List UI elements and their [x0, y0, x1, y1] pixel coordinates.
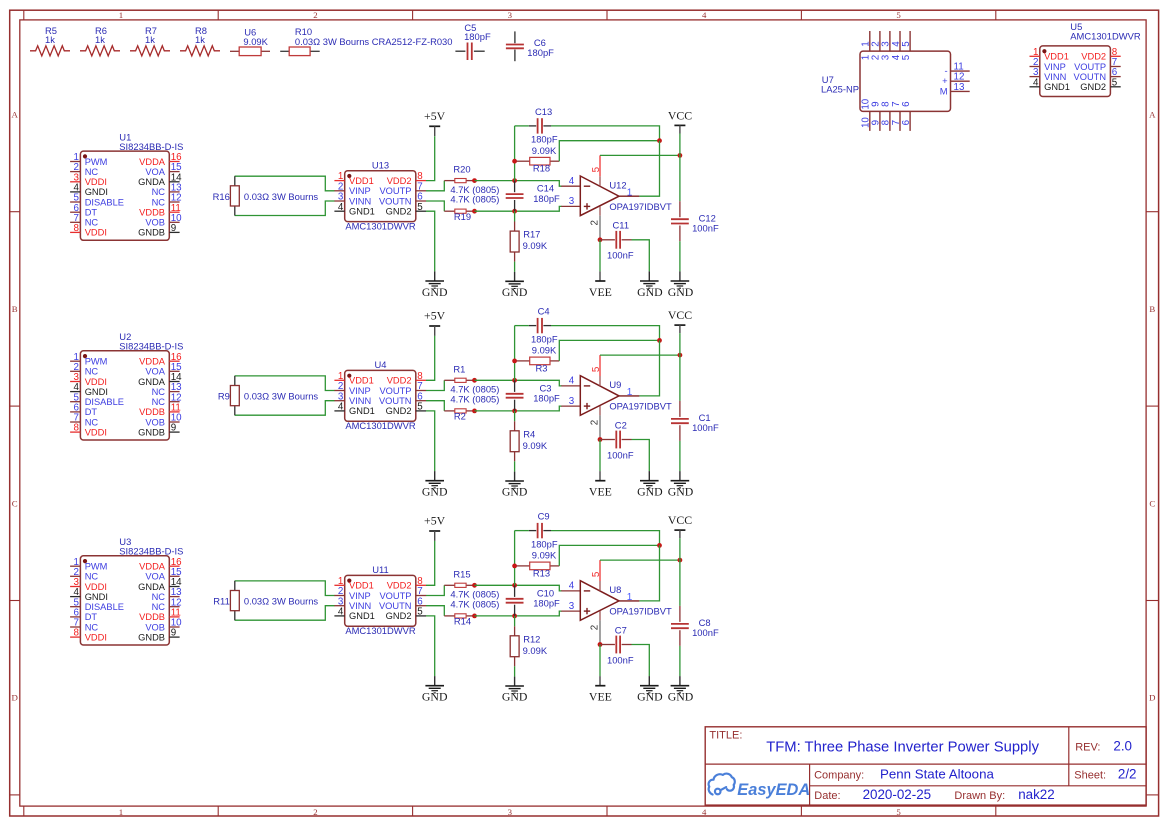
svg-text:DISABLE: DISABLE — [85, 397, 124, 407]
svg-text:NC: NC — [85, 218, 99, 228]
svg-text:VDDI: VDDI — [85, 582, 107, 592]
svg-text:VDD2: VDD2 — [387, 376, 412, 386]
power VEE — [589, 471, 612, 498]
svg-text:VINP: VINP — [349, 591, 371, 601]
svg-text:SI8234BB-D-IS: SI8234BB-D-IS — [119, 546, 183, 557]
wire — [235, 201, 335, 216]
svg-text:NC: NC — [152, 602, 166, 612]
svg-text:0.03Ω 3W Bourns CRA2512-FZ-R03: 0.03Ω 3W Bourns CRA2512-FZ-R030 — [295, 36, 453, 47]
capacitor C12 100nF — [671, 201, 719, 241]
svg-text:6: 6 — [901, 119, 912, 125]
title text — [709, 730, 1039, 756]
svg-text:R13: R13 — [533, 567, 550, 578]
wire — [426, 380, 444, 390]
wire — [679, 646, 681, 676]
svg-text:GNDA: GNDA — [138, 177, 166, 187]
svg-text:5: 5 — [591, 571, 602, 577]
svg-text:VOUTN: VOUTN — [1074, 72, 1107, 82]
svg-text:R19: R19 — [454, 211, 471, 222]
svg-text:R18: R18 — [533, 163, 550, 174]
wire — [559, 340, 659, 361]
wire — [514, 666, 516, 676]
svg-text:4: 4 — [338, 402, 344, 413]
svg-text:4.7K (0805): 4.7K (0805) — [450, 393, 499, 404]
shunt resistor R9 0.03ohm 3W — [218, 376, 319, 415]
svg-text:R1: R1 — [453, 363, 465, 374]
ground — [422, 271, 448, 298]
wire — [426, 401, 444, 411]
svg-text:VOUTN: VOUTN — [379, 196, 412, 206]
svg-text:180pF: 180pF — [533, 598, 560, 609]
svg-text:1: 1 — [119, 807, 123, 817]
resistor R13 9.09K — [517, 550, 560, 579]
power +5V — [424, 109, 446, 136]
svg-text:1k: 1k — [145, 34, 155, 45]
svg-text:C4: C4 — [538, 306, 550, 317]
op-amp input pin stubs — [561, 386, 580, 406]
op-amp U12 OPA197IDBVT — [569, 155, 672, 239]
svg-text:100nF: 100nF — [607, 250, 634, 261]
svg-text:C: C — [1149, 498, 1155, 508]
company — [814, 766, 994, 781]
svg-text:2: 2 — [590, 420, 601, 425]
svg-text:VDDB: VDDB — [139, 612, 165, 622]
svg-text:180pF: 180pF — [527, 47, 554, 58]
wire — [632, 440, 650, 472]
resistor R4 9.09K — [510, 421, 548, 461]
svg-text:8: 8 — [74, 223, 80, 234]
junction — [512, 614, 517, 619]
wire — [426, 211, 435, 271]
wire — [514, 531, 516, 586]
svg-text:C2: C2 — [615, 419, 627, 430]
svg-text:2: 2 — [590, 625, 601, 630]
capacitor C2 100nF — [600, 419, 634, 460]
svg-text:4: 4 — [702, 10, 707, 20]
capacitor C5 180pF — [455, 22, 491, 60]
resistor R18 9.09K — [517, 145, 560, 174]
svg-text:4: 4 — [569, 376, 575, 387]
resistor R8 1k — [180, 25, 220, 56]
capacitor C14 180pF — [506, 181, 560, 212]
wire — [514, 616, 516, 626]
wire — [514, 211, 516, 221]
svg-text:GND: GND — [502, 285, 528, 299]
junction — [512, 159, 517, 164]
capacitor C7 100nF — [600, 624, 634, 665]
svg-text:R12: R12 — [523, 633, 540, 644]
svg-text:GND: GND — [422, 690, 448, 704]
junction — [598, 642, 603, 647]
wire — [426, 336, 435, 380]
svg-text:100nF: 100nF — [692, 422, 719, 433]
svg-text:2: 2 — [313, 10, 317, 20]
svg-text:9.09K: 9.09K — [523, 440, 548, 451]
wire — [632, 645, 650, 677]
svg-text:9: 9 — [171, 423, 176, 434]
svg-text:0.03Ω 3W Bourns: 0.03Ω 3W Bourns — [244, 391, 319, 402]
svg-text:8: 8 — [74, 628, 80, 639]
date — [814, 787, 1054, 802]
svg-text:NC: NC — [152, 197, 166, 207]
wire — [426, 136, 435, 180]
svg-text:U4: U4 — [375, 359, 387, 370]
wire — [475, 206, 562, 211]
svg-text:VDD1: VDD1 — [349, 581, 374, 591]
svg-text:VOA: VOA — [145, 167, 165, 177]
wire — [600, 354, 680, 356]
ground — [637, 271, 663, 298]
resistor R10 0.03ohm — [280, 26, 452, 56]
svg-text:VDDI: VDDI — [85, 427, 107, 437]
svg-text:VOUTP: VOUTP — [379, 186, 411, 196]
resistor R6 1k — [80, 25, 120, 56]
svg-text:R2: R2 — [454, 411, 466, 422]
shunt resistor R16 0.03ohm 3W — [213, 176, 319, 215]
svg-text:GNDI: GNDI — [85, 187, 108, 197]
svg-text:GNDB: GNDB — [138, 228, 165, 238]
wire — [235, 376, 335, 391]
svg-text:NC: NC — [152, 592, 166, 602]
wire — [475, 380, 562, 386]
svg-text:1k: 1k — [195, 34, 205, 45]
svg-text:NC: NC — [85, 622, 99, 632]
svg-text:9.09K: 9.09K — [532, 145, 557, 156]
svg-text:R9: R9 — [218, 391, 230, 402]
svg-text:3: 3 — [569, 601, 575, 612]
svg-text:DT: DT — [85, 612, 98, 622]
svg-text:R17: R17 — [523, 229, 540, 240]
power VCC — [668, 108, 692, 133]
capacitor C3 180pF — [506, 380, 560, 411]
svg-text:VDDB: VDDB — [139, 407, 165, 417]
ground — [502, 677, 528, 704]
svg-text:VDDI: VDDI — [85, 632, 107, 642]
wire — [515, 325, 529, 327]
svg-text:VOUTP: VOUTP — [1074, 62, 1106, 72]
svg-text:VDD1: VDD1 — [1044, 52, 1069, 62]
svg-text:GND1: GND1 — [1044, 82, 1070, 92]
capacitor C9 180pF — [529, 511, 558, 550]
svg-text:VINN: VINN — [349, 196, 371, 206]
wire — [426, 181, 444, 191]
wire — [235, 401, 335, 416]
svg-text:PWM: PWM — [85, 357, 108, 367]
wire — [559, 545, 659, 566]
svg-text:SI8234BB-D-IS: SI8234BB-D-IS — [119, 141, 183, 152]
svg-text:VDDA: VDDA — [139, 562, 166, 572]
capacitor C10 180pF — [506, 585, 560, 616]
capacitor C11 100nF — [600, 220, 634, 261]
svg-text:EasyEDA: EasyEDA — [737, 781, 810, 799]
junction — [678, 558, 683, 563]
wire — [475, 611, 562, 616]
wire — [426, 201, 444, 211]
svg-text:GND: GND — [502, 485, 528, 499]
power +5V — [424, 309, 446, 336]
svg-text:VINN: VINN — [349, 601, 371, 611]
resistor U6 9.09K — [230, 26, 270, 55]
svg-text:AMC1301DWVR: AMC1301DWVR — [345, 625, 416, 636]
resistor R2 4.7K — [444, 393, 499, 421]
svg-text:R15: R15 — [453, 568, 470, 579]
junction — [678, 153, 683, 158]
svg-text:5: 5 — [591, 366, 602, 372]
svg-text:13: 13 — [954, 82, 965, 93]
svg-text:VDD1: VDD1 — [349, 176, 374, 186]
wire — [426, 606, 444, 616]
svg-text:U12: U12 — [609, 179, 626, 190]
ground — [668, 471, 694, 498]
shunt resistor R11 0.03ohm 3W — [213, 581, 318, 620]
svg-text:1: 1 — [627, 387, 633, 398]
ground — [422, 676, 448, 703]
svg-text:VDD1: VDD1 — [349, 376, 374, 386]
svg-text:VINN: VINN — [349, 396, 371, 406]
svg-text:9.09K: 9.09K — [523, 240, 548, 251]
isolated amplifier U13 AMC1301DWVR — [334, 159, 426, 231]
svg-text:5: 5 — [417, 402, 423, 413]
svg-text:SI8234BB-D-IS: SI8234BB-D-IS — [119, 341, 183, 352]
svg-text:U9: U9 — [609, 379, 621, 390]
resistor R7 1k — [130, 25, 170, 56]
svg-text:U13: U13 — [372, 159, 389, 170]
svg-text:3: 3 — [508, 807, 513, 817]
svg-text:180pF: 180pF — [531, 538, 558, 549]
ground — [637, 676, 663, 703]
wire — [639, 340, 659, 396]
wire — [514, 461, 516, 471]
wire — [600, 559, 680, 561]
svg-text:B: B — [12, 304, 18, 314]
svg-text:VOA: VOA — [145, 572, 165, 582]
svg-text:GND2: GND2 — [1080, 82, 1106, 92]
svg-text:3: 3 — [569, 196, 575, 207]
wire — [551, 531, 660, 546]
svg-text:4.7K (0805): 4.7K (0805) — [450, 598, 499, 609]
junction — [472, 614, 477, 619]
sheet — [1074, 766, 1136, 781]
svg-text:NC: NC — [85, 572, 99, 582]
svg-text:3: 3 — [569, 396, 575, 407]
svg-text:M: M — [940, 85, 948, 96]
svg-text:NC: NC — [85, 367, 99, 377]
svg-text:AMC1301DWVR: AMC1301DWVR — [1070, 30, 1141, 41]
svg-text:VCC: VCC — [668, 308, 692, 322]
svg-text:VOB: VOB — [145, 218, 165, 228]
svg-text:nak22: nak22 — [1018, 787, 1054, 802]
op-amp U9 OPA197IDBVT — [569, 355, 672, 439]
svg-text:C9: C9 — [538, 511, 550, 522]
svg-text:5: 5 — [417, 607, 423, 618]
wire — [515, 125, 529, 127]
junction — [512, 564, 517, 569]
svg-text:GNDA: GNDA — [138, 377, 166, 387]
wire — [639, 141, 659, 197]
svg-text:VDDI: VDDI — [85, 177, 107, 187]
svg-text:TFM: Three Phase Inverter Powe: TFM: Three Phase Inverter Power Supply — [766, 739, 1039, 755]
svg-text:4: 4 — [702, 807, 707, 817]
ground — [668, 676, 694, 703]
svg-text:5: 5 — [591, 166, 602, 172]
svg-text:VOUTN: VOUTN — [379, 396, 412, 406]
junction — [657, 543, 662, 548]
svg-text:LA25-NP: LA25-NP — [821, 83, 859, 94]
svg-text:9: 9 — [171, 223, 176, 234]
svg-text:C13: C13 — [535, 106, 552, 117]
svg-text:1: 1 — [627, 592, 633, 603]
wire — [475, 585, 562, 591]
wire — [679, 134, 681, 202]
wire — [235, 176, 335, 191]
svg-text:NC: NC — [85, 417, 99, 427]
svg-text:Sheet:: Sheet: — [1074, 769, 1106, 781]
svg-text:GNDB: GNDB — [138, 632, 165, 642]
isolated amplifier U4 AMC1301DWVR — [334, 359, 426, 431]
svg-text:9.09K: 9.09K — [243, 36, 268, 47]
svg-text:5: 5 — [896, 807, 901, 817]
svg-text:PWM: PWM — [85, 157, 108, 167]
svg-text:GND1: GND1 — [349, 611, 375, 621]
op-amp U8 OPA197IDBVT — [569, 560, 672, 644]
wire — [514, 411, 516, 421]
svg-text:VINP: VINP — [1044, 62, 1066, 72]
wire — [426, 411, 435, 471]
power VCC — [668, 308, 692, 333]
svg-text:4: 4 — [1033, 77, 1039, 88]
svg-text:AMC1301DWVR: AMC1301DWVR — [345, 220, 416, 231]
current transducer U7 LA25-NP — [821, 31, 970, 131]
svg-text:VEE: VEE — [589, 485, 612, 499]
ground — [422, 471, 448, 498]
svg-text:GND1: GND1 — [349, 406, 375, 416]
svg-text:9.09K: 9.09K — [523, 645, 548, 656]
ground — [637, 471, 663, 498]
wire — [426, 585, 444, 595]
ground — [502, 472, 528, 499]
svg-text:VEE: VEE — [589, 690, 612, 704]
svg-text:GND: GND — [668, 485, 694, 499]
svg-text:GND: GND — [637, 285, 663, 299]
svg-text:C7: C7 — [615, 624, 627, 635]
svg-text:VDDI: VDDI — [85, 228, 107, 238]
svg-text:VOB: VOB — [145, 622, 165, 632]
svg-text:5: 5 — [896, 10, 901, 20]
wire — [235, 606, 335, 621]
svg-text:GND2: GND2 — [386, 207, 412, 217]
wire — [235, 581, 335, 596]
svg-text:GNDA: GNDA — [138, 582, 166, 592]
wire — [515, 530, 529, 532]
svg-text:R3: R3 — [536, 362, 548, 373]
svg-text:GNDI: GNDI — [85, 387, 108, 397]
resistor R14 4.7K — [444, 598, 499, 626]
svg-text:U8: U8 — [609, 584, 621, 595]
svg-text:VDDA: VDDA — [139, 157, 166, 167]
svg-text:0.03Ω 3W Bourns: 0.03Ω 3W Bourns — [244, 596, 319, 607]
junction — [657, 138, 662, 143]
svg-text:2: 2 — [313, 807, 317, 817]
wire — [679, 441, 681, 471]
svg-text:2/2: 2/2 — [1118, 766, 1137, 781]
svg-text:Date:: Date: — [814, 790, 840, 802]
svg-text:D: D — [12, 693, 18, 703]
svg-text:PWM: PWM — [85, 562, 108, 572]
svg-text:NC: NC — [152, 187, 166, 197]
ground — [502, 272, 528, 299]
svg-text:VINP: VINP — [349, 186, 371, 196]
resistor R12 9.09K — [510, 626, 548, 666]
wire — [599, 240, 601, 272]
svg-text:1: 1 — [627, 187, 633, 198]
junction — [678, 353, 683, 358]
junction — [472, 209, 477, 214]
wire — [514, 262, 516, 272]
capacitor C8 100nF — [671, 606, 719, 646]
svg-text:VOUTP: VOUTP — [379, 591, 411, 601]
svg-text:3: 3 — [508, 10, 513, 20]
svg-text:NC: NC — [152, 387, 166, 397]
svg-text:100nF: 100nF — [607, 654, 634, 665]
junction — [657, 338, 662, 343]
svg-text:0.03Ω 3W Bourns: 0.03Ω 3W Bourns — [244, 191, 319, 202]
svg-text:DISABLE: DISABLE — [85, 197, 124, 207]
power VEE — [589, 271, 612, 298]
svg-text:GND: GND — [668, 285, 694, 299]
svg-text:100nF: 100nF — [607, 449, 634, 460]
resistor R5 1k — [30, 25, 70, 56]
wire — [551, 326, 660, 341]
svg-text:4: 4 — [338, 202, 344, 213]
svg-text:VCC: VCC — [668, 108, 692, 122]
svg-text:6: 6 — [901, 101, 912, 107]
wire — [679, 538, 681, 606]
resistor R1 4.7K — [444, 363, 499, 394]
svg-text:5: 5 — [901, 54, 912, 60]
resistor R17 9.09K — [510, 222, 548, 262]
svg-text:4: 4 — [338, 607, 344, 618]
svg-text:180pF: 180pF — [533, 393, 560, 404]
junction — [512, 209, 517, 214]
junction — [598, 437, 603, 442]
junction — [512, 359, 517, 364]
svg-text:1: 1 — [119, 10, 123, 20]
svg-text:VDD2: VDD2 — [387, 581, 412, 591]
svg-text:VEE: VEE — [589, 285, 612, 299]
junction — [472, 409, 477, 414]
svg-text:R4: R4 — [523, 428, 535, 439]
wire — [599, 440, 601, 472]
revision — [1075, 739, 1132, 754]
capacitor C6 180pF — [506, 31, 554, 61]
capacitor C4 180pF — [529, 306, 558, 345]
op-amp input pin stubs — [561, 591, 580, 611]
svg-text:U11: U11 — [372, 564, 389, 575]
junction — [512, 409, 517, 414]
svg-text:R14: R14 — [454, 616, 471, 627]
svg-text:9.09K: 9.09K — [532, 550, 557, 561]
svg-text:100nF: 100nF — [692, 223, 719, 234]
EasyEDA logo — [709, 774, 811, 799]
capacitor C13 180pF — [529, 106, 558, 145]
svg-text:4.7K (0805): 4.7K (0805) — [450, 194, 499, 205]
svg-text:+5V: +5V — [424, 514, 446, 528]
svg-text:DT: DT — [85, 208, 98, 218]
svg-text:VDDB: VDDB — [139, 208, 165, 218]
title block frame — [705, 727, 1146, 805]
junction — [472, 178, 477, 183]
svg-text:180pF: 180pF — [531, 333, 558, 344]
